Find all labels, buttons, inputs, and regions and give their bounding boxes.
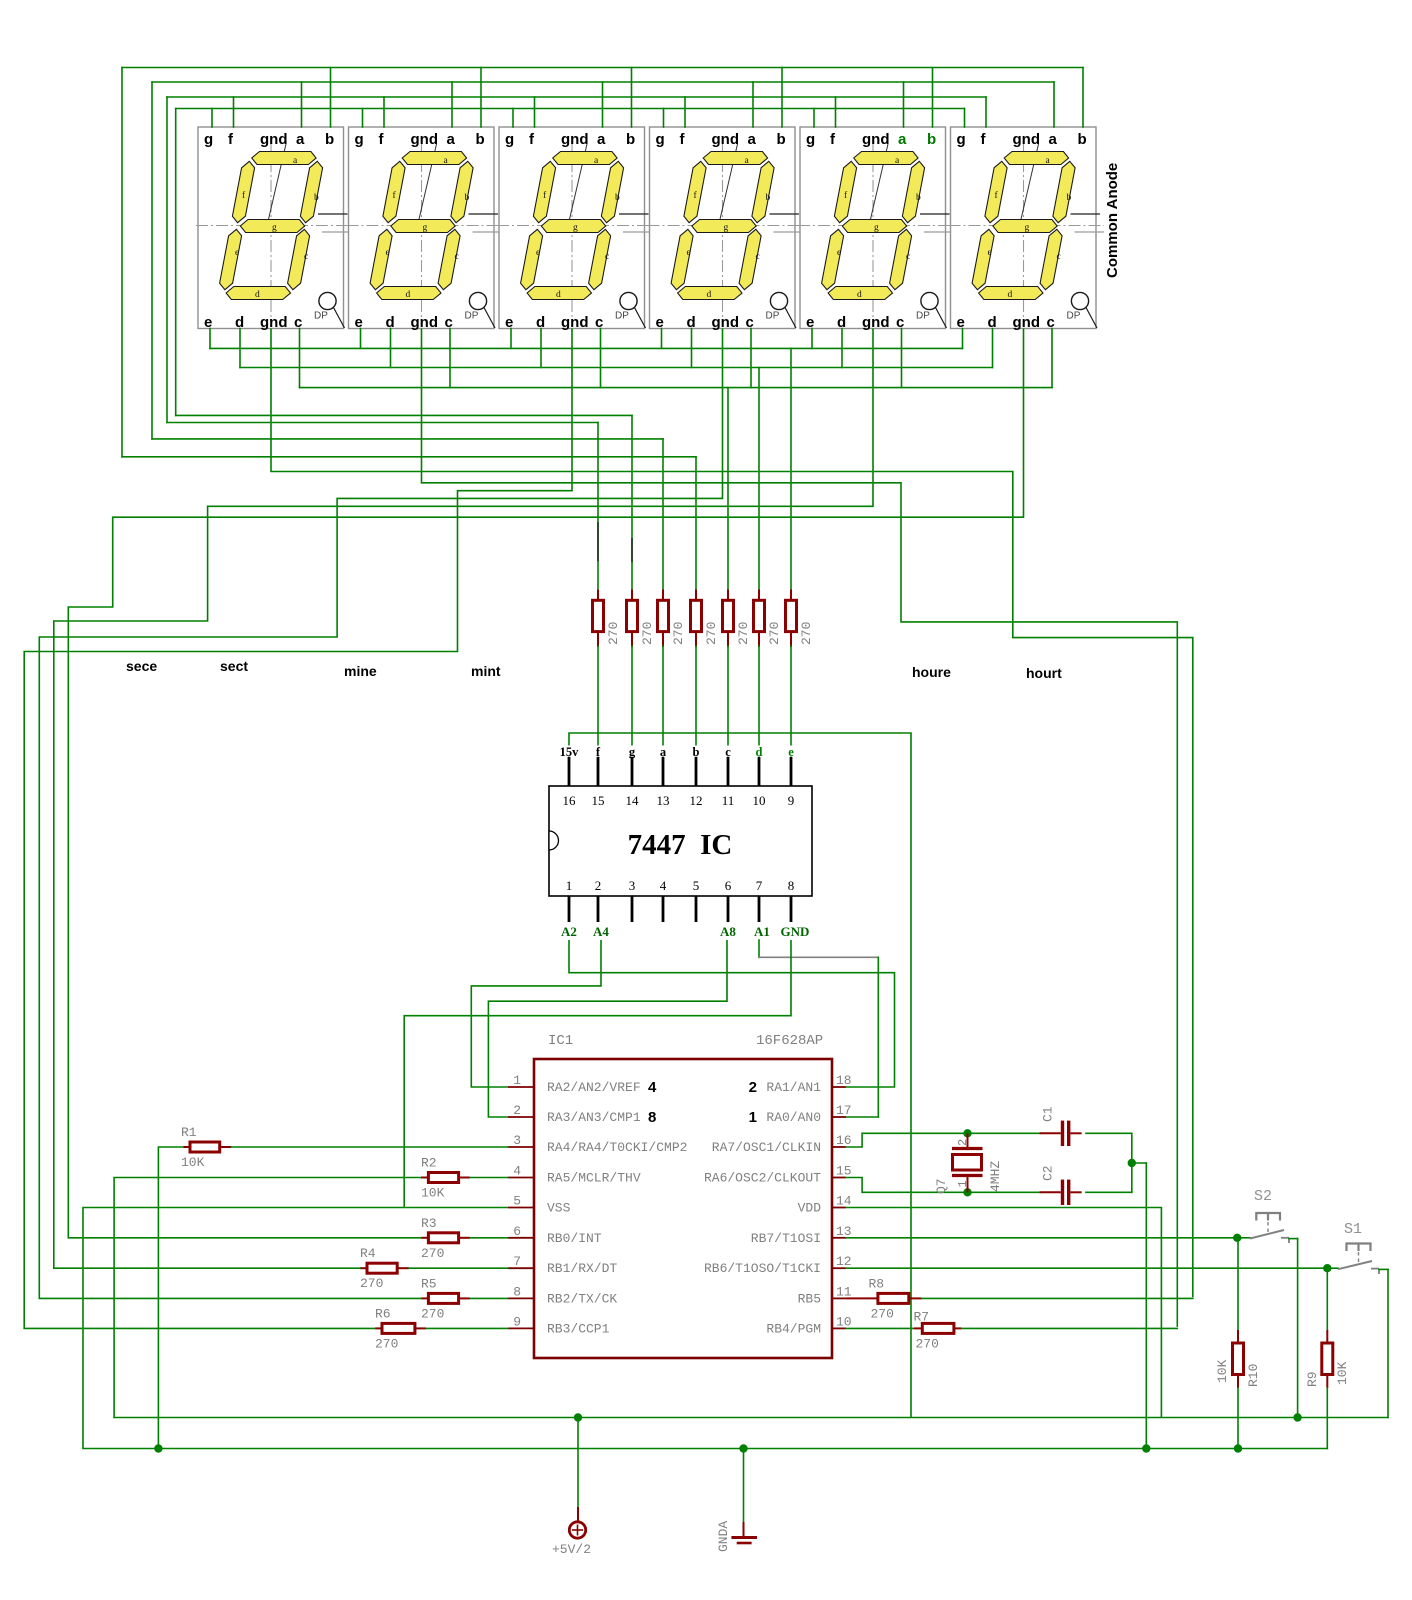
svg-text:b: b <box>916 193 921 203</box>
svg-text:Q7: Q7 <box>934 1178 949 1194</box>
svg-text:270: 270 <box>606 622 621 645</box>
svg-text:2: 2 <box>749 1079 757 1096</box>
wire: segment-e bus (below displays) <box>210 347 963 349</box>
svg-text:8: 8 <box>788 878 795 893</box>
svg-text:6: 6 <box>725 878 732 893</box>
svg-text:4: 4 <box>660 878 667 893</box>
svg-text:5: 5 <box>693 878 700 893</box>
wire: segment-c bus (below displays) <box>300 387 1053 389</box>
svg-text:16F628AP: 16F628AP <box>756 1033 823 1049</box>
svg-text:d: d <box>556 290 561 300</box>
node: rail junctions <box>154 1413 1302 1452</box>
svg-text:RB4/PGM: RB4/PGM <box>766 1321 821 1336</box>
7-segment display DS2 (common anode) <box>347 127 503 331</box>
wire: mine to R5 to RB2 <box>39 1297 508 1299</box>
wire: +5v to 7447 pin16 and down to +5V rail <box>569 733 911 1418</box>
wire: mint to R6 to RB3 <box>24 1327 508 1329</box>
svg-text:d: d <box>707 290 712 300</box>
svg-text:+5V/2: +5V/2 <box>552 1542 591 1557</box>
svg-text:S1: S1 <box>1344 1221 1362 1238</box>
svg-text:270: 270 <box>421 1306 444 1321</box>
svg-text:RA6/OSC2/CLKOUT: RA6/OSC2/CLKOUT <box>704 1171 821 1186</box>
wire: segment-b bus (top) <box>122 67 1083 69</box>
svg-text:c: c <box>294 314 302 331</box>
svg-text:270: 270 <box>916 1337 939 1352</box>
resistor R9 10K <box>1305 1268 1350 1448</box>
svg-text:e: e <box>837 248 841 258</box>
svg-text:c: c <box>595 314 603 331</box>
svg-text:e: e <box>656 314 664 331</box>
svg-text:VSS: VSS <box>547 1201 571 1216</box>
svg-text:DP: DP <box>916 311 930 322</box>
svg-text:RB2/TX/CK: RB2/TX/CK <box>547 1291 617 1306</box>
svg-text:c: c <box>746 314 754 331</box>
svg-text:g: g <box>806 131 815 148</box>
wire: dark overlap segments above f/g resistors <box>598 523 632 562</box>
svg-text:R8: R8 <box>869 1277 885 1292</box>
svg-text:R5: R5 <box>421 1276 437 1291</box>
svg-text:R4: R4 <box>360 1246 376 1261</box>
crystal Q7 4MHZ <box>934 1133 1003 1194</box>
7-segment display DS6 (common anode) <box>949 127 1105 331</box>
resistor R6 270 <box>375 1306 415 1351</box>
svg-text:c: c <box>1057 252 1061 262</box>
wire/node sece net (digit 6 common) <box>68 329 1023 1238</box>
svg-text:RB5: RB5 <box>798 1291 821 1306</box>
wire: GND net (7447 pin8 to PIC VSS) <box>404 940 791 1208</box>
svg-text:13: 13 <box>836 1224 852 1239</box>
svg-text:d: d <box>255 290 260 300</box>
svg-text:b: b <box>766 193 771 203</box>
svg-text:S2: S2 <box>1254 1188 1272 1205</box>
svg-text:A2: A2 <box>561 924 577 939</box>
svg-text:1: 1 <box>956 1180 970 1187</box>
wire: A2 net (7447 pin1 to PIC RA1/pin18) <box>569 940 895 1087</box>
svg-text:gnd: gnd <box>1013 314 1041 331</box>
svg-text:VDD: VDD <box>798 1201 822 1216</box>
svg-text:c: c <box>725 745 731 759</box>
svg-text:270: 270 <box>767 622 782 645</box>
svg-text:e: e <box>536 248 540 258</box>
svg-text:g: g <box>629 745 636 759</box>
wire: S2 to +5V rail <box>1289 1239 1298 1418</box>
resistor 270 ohm (segment series #3) <box>658 591 687 647</box>
svg-text:c: c <box>896 314 904 331</box>
svg-text:c: c <box>906 252 910 262</box>
node: S1 junction <box>1323 1264 1331 1272</box>
svg-text:10K: 10K <box>1215 1359 1230 1383</box>
svg-text:DP: DP <box>615 311 629 322</box>
svg-text:17: 17 <box>836 1103 852 1118</box>
capacitor C1 <box>1040 1106 1082 1146</box>
svg-text:16: 16 <box>563 793 577 808</box>
svg-text:sece: sece <box>126 658 157 674</box>
svg-text:e: e <box>988 248 992 258</box>
wire: segment-f bus (top) <box>167 96 986 98</box>
svg-text:gnd: gnd <box>411 131 439 148</box>
svg-text:b: b <box>615 193 620 203</box>
7-segment display DS4 (common anode) <box>648 127 804 331</box>
svg-text:e: e <box>957 314 965 331</box>
wire: +5V rail <box>114 1417 1388 1419</box>
svg-text:GNDA: GNDA <box>716 1521 731 1552</box>
svg-text:12: 12 <box>836 1254 852 1269</box>
svg-text:A1: A1 <box>754 924 770 939</box>
svg-text:GND: GND <box>781 924 810 939</box>
wire: R2 to RA5/MCLR and +5V rail <box>114 1178 508 1418</box>
node: crystal junctions <box>963 1129 1136 1196</box>
svg-text:IC1: IC1 <box>548 1033 573 1049</box>
svg-text:a: a <box>660 745 667 759</box>
svg-text:e: e <box>204 314 212 331</box>
svg-text:gnd: gnd <box>411 314 439 331</box>
wire: C1/C2 node to ground rail <box>1132 1163 1147 1449</box>
svg-text:a: a <box>748 131 757 148</box>
resistor R7 270 <box>846 1310 962 1352</box>
svg-text:12: 12 <box>690 793 703 808</box>
svg-text:270: 270 <box>704 622 719 645</box>
svg-text:2: 2 <box>513 1103 521 1118</box>
svg-text:mine: mine <box>344 663 377 679</box>
svg-text:e: e <box>235 248 239 258</box>
resistor 270 ohm (segment series #5) <box>723 591 752 647</box>
wire: segment-d bus (below displays) <box>240 367 993 369</box>
resistor R10 10K <box>1215 1238 1261 1449</box>
svg-text:b: b <box>1067 193 1072 203</box>
svg-text:b: b <box>1078 131 1087 148</box>
svg-text:R10: R10 <box>1246 1364 1261 1387</box>
7-segment display DS1 (common anode) <box>196 127 352 331</box>
svg-text:g: g <box>1025 223 1030 233</box>
svg-text:gnd: gnd <box>862 131 890 148</box>
svg-text:4: 4 <box>648 1079 657 1096</box>
wire: resistor bank to 7447 pins <box>598 646 791 757</box>
svg-text:g: g <box>355 131 364 148</box>
svg-text:RA3/AN3/CMP1: RA3/AN3/CMP1 <box>547 1110 641 1125</box>
svg-text:a: a <box>597 131 606 148</box>
svg-text:A8: A8 <box>720 924 736 939</box>
svg-text:e: e <box>806 314 814 331</box>
svg-text:8: 8 <box>513 1284 521 1299</box>
svg-text:9: 9 <box>513 1314 521 1329</box>
svg-text:C1: C1 <box>1041 1106 1056 1122</box>
svg-text:b: b <box>314 193 319 203</box>
svg-text:c: c <box>605 252 609 262</box>
wire/node houre net (digit 2 common) <box>422 329 1178 1327</box>
svg-text:b: b <box>693 745 700 759</box>
wire: RB5 row (to hourt vertical) <box>922 1297 1193 1299</box>
IC IC1: PIC 16F628AP microcontroller <box>508 1033 852 1358</box>
svg-text:DP: DP <box>1067 311 1081 322</box>
svg-text:R9: R9 <box>1305 1371 1320 1387</box>
wire: VDD to +5V rail <box>846 1208 1162 1418</box>
svg-text:14: 14 <box>626 793 640 808</box>
svg-text:R3: R3 <box>421 1216 437 1231</box>
wire/node mint net (digit 3 common) <box>24 329 572 1329</box>
svg-text:d: d <box>406 290 411 300</box>
svg-text:e: e <box>355 314 363 331</box>
wire: ground rail <box>83 1448 1327 1450</box>
svg-text:gnd: gnd <box>712 131 740 148</box>
svg-text:d: d <box>857 290 862 300</box>
svg-text:g: g <box>957 131 966 148</box>
svg-text:10: 10 <box>753 793 766 808</box>
resistor R4 270 <box>360 1246 397 1291</box>
svg-text:5: 5 <box>513 1194 521 1209</box>
svg-text:RB7/T1OSI: RB7/T1OSI <box>751 1231 821 1246</box>
svg-text:g: g <box>573 223 578 233</box>
svg-text:RB1/RX/DT: RB1/RX/DT <box>547 1261 617 1276</box>
wire: A1 net (7447 pin7 to PIC RA0/pin17) <box>759 940 878 1117</box>
svg-text:Common Anode: Common Anode <box>1104 163 1121 278</box>
svg-text:g: g <box>272 223 277 233</box>
svg-text:R2: R2 <box>421 1156 437 1171</box>
svg-text:g: g <box>874 223 879 233</box>
svg-text:c: c <box>455 252 459 262</box>
svg-text:a: a <box>447 131 456 148</box>
svg-text:gnd: gnd <box>561 131 589 148</box>
svg-text:c: c <box>756 252 760 262</box>
svg-text:d: d <box>1008 290 1013 300</box>
resistor 270 ohm (segment series #2) <box>627 591 656 647</box>
wire: A8 net (7447 pin6 to PIC RA3/pin2) <box>488 940 727 1117</box>
svg-text:270: 270 <box>640 622 655 645</box>
wire: OSC1 loop (pin16 to crystal/C1) <box>846 1133 1132 1163</box>
svg-text:g: g <box>204 131 213 148</box>
svg-text:1: 1 <box>513 1073 521 1088</box>
svg-text:270: 270 <box>421 1246 444 1261</box>
svg-text:10K: 10K <box>181 1155 205 1170</box>
svg-text:b: b <box>465 193 470 203</box>
7-segment display DS5 (common anode) <box>798 127 954 331</box>
wire: sect to R4 to RB1 <box>54 1267 508 1269</box>
resistor R3 270 <box>421 1216 459 1261</box>
svg-text:7: 7 <box>756 878 763 893</box>
svg-text:g: g <box>423 223 428 233</box>
svg-text:RB6/T1OSO/T1CKI: RB6/T1OSO/T1CKI <box>704 1261 821 1276</box>
wire: RB4 row (to houre vertical) <box>962 1327 1178 1329</box>
svg-text:8: 8 <box>648 1109 656 1126</box>
svg-text:e: e <box>687 248 691 258</box>
svg-text:g: g <box>656 131 665 148</box>
svg-text:15: 15 <box>592 793 605 808</box>
svg-text:c: c <box>1047 314 1055 331</box>
wire: A4 net (7447 pin2 to PIC RA2/pin1) <box>471 940 601 1087</box>
capacitor C2 <box>1040 1165 1082 1205</box>
svg-text:3: 3 <box>629 878 636 893</box>
svg-text:10: 10 <box>836 1314 852 1329</box>
svg-text:e: e <box>505 314 513 331</box>
svg-text:270: 270 <box>736 622 751 645</box>
svg-text:mint: mint <box>471 663 501 679</box>
svg-text:e: e <box>788 745 794 759</box>
svg-text:RA7/OSC1/CLKIN: RA7/OSC1/CLKIN <box>712 1140 821 1155</box>
svg-text:6: 6 <box>513 1224 521 1239</box>
svg-text:b: b <box>777 131 786 148</box>
svg-text:4MHZ: 4MHZ <box>988 1161 1003 1192</box>
svg-text:A4: A4 <box>593 924 609 939</box>
svg-text:11: 11 <box>836 1284 852 1299</box>
svg-text:14: 14 <box>836 1194 852 1209</box>
svg-text:gnd: gnd <box>561 314 589 331</box>
switch S1 <box>1327 1221 1379 1274</box>
svg-text:RB3/CCP1: RB3/CCP1 <box>547 1321 610 1336</box>
svg-text:RA2/AN2/VREF: RA2/AN2/VREF <box>547 1080 641 1095</box>
svg-text:C2: C2 <box>1041 1165 1056 1181</box>
svg-text:R7: R7 <box>914 1310 930 1325</box>
svg-text:3: 3 <box>513 1133 521 1148</box>
svg-text:10K: 10K <box>421 1186 445 1201</box>
node: S2 junction <box>1233 1234 1241 1242</box>
svg-text:RA5/MCLR/THV: RA5/MCLR/THV <box>547 1171 641 1186</box>
svg-text:270: 270 <box>671 622 686 645</box>
svg-text:RA4/RA4/T0CKI/CMP2: RA4/RA4/T0CKI/CMP2 <box>547 1140 687 1155</box>
svg-text:gnd: gnd <box>712 314 740 331</box>
wire: sece to R3 to RB0 <box>68 1237 508 1239</box>
svg-text:a: a <box>296 131 305 148</box>
svg-text:18: 18 <box>836 1073 852 1088</box>
svg-text:b: b <box>476 131 485 148</box>
power symbol +5V/2 <box>552 1418 591 1558</box>
resistor 270 ohm (segment series #1) <box>593 591 622 647</box>
svg-text:gnd: gnd <box>862 314 890 331</box>
wire: S1 to +5V rail (right end) <box>1379 1269 1388 1417</box>
wire: OSC2 loop (pin15 to crystal/C2) <box>846 1163 1132 1192</box>
svg-text:g: g <box>505 131 514 148</box>
svg-text:2: 2 <box>956 1139 970 1146</box>
svg-text:b: b <box>927 131 936 148</box>
svg-text:270: 270 <box>799 622 814 645</box>
svg-text:DP: DP <box>314 311 328 322</box>
svg-text:1: 1 <box>566 878 573 893</box>
svg-text:270: 270 <box>871 1307 894 1322</box>
svg-text:15: 15 <box>836 1164 852 1179</box>
svg-text:gnd: gnd <box>260 314 288 331</box>
svg-text:b: b <box>325 131 334 148</box>
ground symbol GNDA <box>716 1449 757 1553</box>
svg-text:2: 2 <box>595 878 602 893</box>
svg-text:a: a <box>1049 131 1058 148</box>
svg-text:houre: houre <box>912 664 951 680</box>
svg-text:1: 1 <box>749 1109 757 1126</box>
svg-text:9: 9 <box>788 793 795 808</box>
resistor 270 ohm (segment series #6) <box>754 591 783 647</box>
resistor R1 10K <box>181 1125 220 1170</box>
svg-text:b: b <box>626 131 635 148</box>
wire: RB7 row to S2 <box>846 1237 1237 1239</box>
svg-text:gnd: gnd <box>260 131 288 148</box>
svg-text:15v: 15v <box>560 745 580 759</box>
svg-text:sect: sect <box>220 658 248 674</box>
wire: VSS to ground rail <box>83 1208 508 1449</box>
svg-text:RA1/AN1: RA1/AN1 <box>766 1080 821 1095</box>
svg-text:R1: R1 <box>181 1125 197 1140</box>
svg-text:7: 7 <box>513 1254 521 1269</box>
resistor 270 ohm (segment series #4) <box>691 591 720 647</box>
svg-text:e: e <box>386 248 390 258</box>
wire/node sect net (digit 5 common) <box>54 329 873 1269</box>
svg-text:DP: DP <box>766 311 780 322</box>
resistor R5 270 <box>421 1276 459 1321</box>
wire/node hourt net (digit 1 common) <box>271 329 1193 1298</box>
svg-text:4: 4 <box>513 1164 521 1179</box>
svg-text:R6: R6 <box>375 1306 391 1321</box>
svg-text:11: 11 <box>722 793 735 808</box>
svg-text:g: g <box>724 223 729 233</box>
svg-text:RA0/AN0: RA0/AN0 <box>766 1110 821 1125</box>
svg-text:c: c <box>445 314 453 331</box>
svg-text:hourt: hourt <box>1026 665 1062 681</box>
svg-text:16: 16 <box>836 1133 852 1148</box>
wire: R1 to RA4 and ground rail <box>158 1147 507 1449</box>
svg-text:10K: 10K <box>1335 1361 1350 1385</box>
svg-text:DP: DP <box>465 311 479 322</box>
wire: RB6 row to S1 <box>846 1267 1327 1269</box>
svg-text:7447 IC: 7447 IC <box>628 829 733 861</box>
resistor 270 ohm (segment series #7) <box>786 591 815 647</box>
wire: segment-a bus (top) <box>152 81 1054 83</box>
wire: segment-g bus (top) <box>176 108 965 110</box>
svg-text:d: d <box>756 745 763 759</box>
svg-text:RB0/INT: RB0/INT <box>547 1231 602 1246</box>
7-segment display DS3 (common anode) <box>497 127 653 331</box>
resistor R8 270 <box>846 1277 922 1322</box>
svg-text:13: 13 <box>657 793 670 808</box>
svg-text:c: c <box>304 252 308 262</box>
wire/node mine net (digit 4 common) <box>39 329 722 1299</box>
svg-text:270: 270 <box>360 1276 383 1291</box>
resistor R2 10K <box>421 1156 459 1201</box>
svg-text:gnd: gnd <box>1013 131 1041 148</box>
op-amp/IC U1: 7447 BCD to 7-seg decoder <box>549 745 812 922</box>
svg-text:270: 270 <box>375 1336 398 1351</box>
svg-text:a: a <box>898 131 907 148</box>
switch S2 <box>1237 1188 1289 1243</box>
